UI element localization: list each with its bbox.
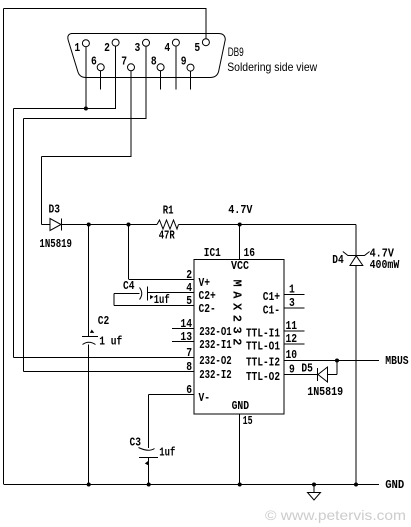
svg-text:D4: D4: [332, 253, 344, 267]
wire node to C2: [88, 225, 90, 337]
svg-text:C3: C3: [130, 436, 142, 450]
stub pin4: [175, 46, 177, 89]
svg-text:15: 15: [243, 414, 253, 428]
svg-text:VCC: VCC: [231, 259, 249, 273]
op IC1 MAX232 body: [194, 260, 284, 415]
svg-text:TTL-I2: TTL-I2: [246, 356, 280, 370]
svg-text:D3: D3: [49, 203, 61, 217]
stub: [285, 294, 305, 296]
svg-text:© www.petervis.com: © www.petervis.com: [265, 507, 406, 523]
wire pin5 to top rail: [205, 9, 207, 39]
wire C2 to ground rail: [88, 345, 90, 485]
stub pin 13: [172, 341, 194, 343]
DB9 pin 2: [112, 39, 119, 46]
diode D3: [42, 224, 51, 226]
wire pin10 MBUS: [285, 360, 379, 362]
capacitor C4: [147, 287, 149, 301]
stub pin8: [160, 71, 162, 90]
svg-text:8: 8: [151, 55, 157, 69]
svg-text:TTL-O2: TTL-O2: [246, 370, 280, 384]
DB9 pin 8: [157, 64, 164, 71]
svg-text:47R: 47R: [159, 229, 176, 243]
capacitor C2: [82, 336, 98, 338]
svg-text:1uf: 1uf: [154, 293, 170, 307]
stub pin6: [100, 71, 102, 90]
svg-text:C4: C4: [123, 279, 135, 293]
capacitor C3: [139, 448, 155, 451]
svg-text:8: 8: [186, 360, 192, 374]
wire pin4 to C4 plate: [148, 292, 195, 294]
wire 4.7V node to IC pin2 V+: [128, 225, 130, 280]
wire left outer down to ground rail: [3, 9, 5, 485]
svg-text:GND: GND: [385, 478, 404, 492]
node C2-ground: [87, 483, 91, 487]
polarity arrow C2: [90, 330, 94, 333]
svg-text:V-: V-: [199, 391, 211, 405]
polarity arrow C4: [150, 295, 153, 299]
svg-text:MBUS: MBUS: [385, 354, 408, 368]
ground symbol: [312, 483, 316, 487]
resistor R1: [157, 220, 179, 229]
svg-text:1uf: 1uf: [159, 445, 175, 459]
svg-text:6: 6: [91, 55, 97, 69]
svg-text:1N5819: 1N5819: [307, 385, 343, 399]
svg-text:232-O2: 232-O2: [199, 354, 232, 368]
wire C4 curved plate loop to pin5: [114, 293, 140, 295]
svg-text:5: 5: [194, 41, 200, 55]
svg-text:GND: GND: [232, 399, 250, 413]
node C2 branch: [87, 223, 91, 227]
wire D4 anode down to ground rail: [355, 266, 357, 485]
svg-text:DB9: DB9: [228, 45, 244, 59]
svg-text:D5: D5: [301, 362, 313, 376]
wire D3 cathode to R1: [62, 224, 158, 226]
stub pin9: [190, 71, 192, 89]
stub pin 14: [172, 328, 194, 330]
stub: [285, 343, 305, 345]
zener diode D4: [348, 255, 365, 257]
wire pin3 down, left, down to IC pin8 row: [145, 46, 147, 118]
svg-text:10: 10: [286, 348, 298, 362]
connector J1 DB9 shell: [68, 34, 225, 78]
svg-text:TTL-O1: TTL-O1: [246, 340, 280, 354]
diode D5: [317, 368, 319, 381]
wire pin9 to D5 cathode: [285, 374, 318, 376]
svg-text:400mW: 400mW: [370, 258, 400, 272]
svg-text:V+: V+: [199, 276, 211, 290]
svg-text:2: 2: [104, 41, 110, 55]
wire C3 to ground rail: [148, 458, 150, 485]
svg-text:C2+: C2+: [199, 289, 216, 303]
node rail-ground: [354, 483, 358, 487]
wire 4.7V to D4: [355, 225, 357, 256]
svg-text:232-I2: 232-I2: [199, 368, 232, 382]
svg-text:1: 1: [74, 41, 80, 55]
DB9 pin 6: [97, 64, 104, 71]
svg-text:C2-: C2-: [199, 302, 216, 316]
node C3-ground: [147, 483, 151, 487]
svg-text:TTL-I1: TTL-I1: [246, 327, 280, 341]
pin 16 wire: [239, 225, 241, 260]
svg-text:9: 9: [181, 55, 187, 69]
svg-text:3: 3: [135, 41, 141, 55]
wire pin1 down to junction: [85, 47, 87, 108]
svg-text:C2: C2: [98, 314, 110, 328]
svg-text:7: 7: [186, 346, 192, 360]
svg-text:1 uf: 1 uf: [99, 334, 122, 348]
wire R1 to right rail: [179, 224, 357, 226]
pin 15 wire: [239, 414, 241, 484]
wire pin7 down, left, down to D3 anode: [130, 71, 132, 157]
svg-text:4.7V: 4.7V: [228, 203, 253, 217]
svg-text:Soldering side view: Soldering side view: [227, 60, 317, 74]
svg-text:IC1: IC1: [204, 246, 221, 260]
node D5 branch: [335, 359, 339, 363]
DB9 pin 9: [187, 64, 194, 71]
svg-text:232-O1: 232-O1: [199, 325, 232, 339]
DB9 pin 4: [172, 39, 179, 46]
wire ground rail: [4, 484, 379, 486]
DB9 pin 5: [202, 39, 209, 46]
node V+ branch: [127, 223, 131, 227]
svg-text:R1: R1: [163, 204, 174, 218]
svg-text:7: 7: [121, 55, 127, 69]
DB9 pin 3: [143, 39, 150, 46]
svg-text:C1+: C1+: [263, 290, 280, 304]
svg-text:16: 16: [244, 246, 256, 260]
svg-text:1N5819: 1N5819: [39, 237, 72, 251]
wire pin2 down, left, down to IC pin7 row: [115, 46, 117, 108]
DB9 pin 1: [82, 40, 89, 47]
DB9 pin 7: [128, 64, 135, 71]
svg-text:C1-: C1-: [263, 304, 280, 318]
polarity arrow C3: [145, 461, 148, 465]
wire pin 6 V- to C3: [149, 394, 194, 396]
svg-text:4: 4: [164, 41, 170, 55]
svg-text:232-I1: 232-I1: [199, 338, 232, 352]
stub: [285, 330, 305, 332]
node pins 1-2 junction: [84, 107, 88, 111]
node pin15-ground: [238, 483, 242, 487]
stub: [285, 307, 305, 309]
node pin16 branch: [238, 223, 242, 227]
svg-text:2: 2: [186, 268, 192, 282]
